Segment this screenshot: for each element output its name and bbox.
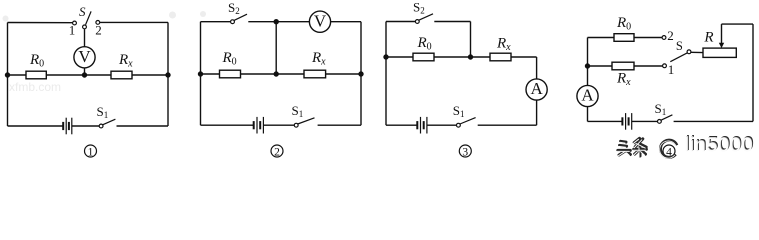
svg-text:lin5000: lin5000 bbox=[685, 135, 754, 157]
node: ckt3 loop junction bbox=[469, 55, 473, 59]
svg-text:R: R bbox=[703, 30, 713, 46]
label circled 4 bbox=[663, 145, 675, 158]
switch S1 ckt2 pivot bbox=[294, 123, 298, 127]
svg-text:Rx: Rx bbox=[311, 50, 326, 68]
wire: battery to left ckt4 bbox=[588, 120, 623, 122]
svg-text:2: 2 bbox=[95, 22, 102, 37]
svg-text:Rx: Rx bbox=[616, 71, 631, 89]
svg-text:S: S bbox=[79, 4, 86, 19]
wire: ckt4 top row left bbox=[588, 37, 615, 39]
svg-text:R0: R0 bbox=[616, 15, 631, 33]
wire: battery to S1 ckt2 bbox=[263, 124, 294, 126]
watermark char 条 (dark strokes) bbox=[634, 138, 647, 156]
voltmeter V ckt2 bbox=[309, 11, 330, 32]
rheostat R body bbox=[703, 48, 736, 57]
svg-text:xfmb.com: xfmb.com bbox=[9, 80, 61, 94]
node: ckt1 mid-left junction bbox=[6, 73, 10, 77]
wire: S2 loop top right bbox=[434, 21, 470, 23]
svg-text:Rx: Rx bbox=[118, 52, 133, 70]
wire: ckt3 left vertical bbox=[385, 22, 387, 126]
watermark @ ring bbox=[660, 140, 676, 157]
wire: mid wire left bbox=[8, 74, 27, 76]
resistor Rx ckt4 bbox=[612, 62, 634, 70]
node: ckt2 mid-center junction bbox=[274, 72, 278, 76]
switch S1 ckt1 blade bbox=[103, 119, 116, 125]
svg-text:1: 1 bbox=[88, 146, 94, 158]
wire: ckt2 mid row left bbox=[201, 73, 220, 75]
svg-text:2: 2 bbox=[667, 28, 674, 43]
resistor R0 ckt1 bbox=[26, 71, 46, 79]
svg-text:S1: S1 bbox=[292, 103, 304, 119]
wire: ammeter to bottom bbox=[536, 100, 538, 125]
wire: ckt1 top right segment bbox=[100, 21, 168, 23]
wire: ckt2 right vertical bbox=[360, 22, 362, 126]
wire: pole to rheostat bbox=[691, 51, 703, 53]
switch S2 ckt2 pivot bbox=[231, 20, 235, 24]
svg-text:1: 1 bbox=[668, 62, 675, 77]
selector pole S bbox=[687, 50, 691, 54]
wire: ckt4 bottom right bbox=[674, 120, 753, 122]
svg-text:V: V bbox=[314, 12, 327, 31]
switch S1 ckt1 pivot bbox=[99, 124, 103, 128]
node: ckt2 top junction bbox=[274, 20, 278, 24]
battery ckt4 bbox=[622, 113, 631, 130]
node: ckt1 mid-center junction bbox=[83, 73, 87, 77]
switch S1 ckt4 blade bbox=[661, 115, 672, 120]
wire: voltmeter to mid wire bbox=[84, 68, 86, 75]
watermark char 头 (white streaks) bbox=[617, 142, 630, 156]
switch S1 ckt3 pivot bbox=[457, 123, 461, 127]
wire: ckt3 bottom right bbox=[478, 124, 537, 126]
wire: right corner to ammeter bbox=[536, 57, 538, 79]
wire: ckt4 Rx row left bbox=[588, 65, 613, 67]
node: ckt2 mid-right junction bbox=[359, 72, 363, 76]
svg-text:S1: S1 bbox=[97, 104, 109, 120]
selector contact 2 bbox=[662, 36, 666, 40]
wire: S2 loop top left bbox=[386, 21, 415, 23]
wire: ckt1 left vertical bbox=[7, 23, 9, 127]
switch S1 ckt4 pivot bbox=[658, 120, 662, 124]
wire: pole to voltmeter bbox=[84, 29, 86, 47]
svg-text:S: S bbox=[676, 39, 683, 53]
resistor Rx ckt2 bbox=[304, 70, 326, 78]
ammeter A ckt4 bbox=[577, 85, 598, 106]
svg-text:1: 1 bbox=[69, 23, 76, 38]
svg-text:R0: R0 bbox=[29, 52, 44, 70]
resistor R0 ckt2 bbox=[220, 70, 241, 78]
wire: R0 to contact 2 bbox=[634, 37, 662, 39]
wire: battery to S1 ckt3 bbox=[427, 124, 457, 126]
switch S1 ckt2 blade bbox=[298, 118, 315, 124]
wire: voltmeter to right corner bbox=[331, 21, 361, 23]
label circled 1 bbox=[85, 145, 97, 158]
selector blade to contact 1 bbox=[670, 53, 687, 62]
wire: ckt1 top left segment bbox=[8, 22, 73, 24]
battery ckt3 bbox=[417, 117, 427, 134]
svg-text:S1: S1 bbox=[453, 103, 465, 119]
selector contact 1 bbox=[663, 64, 667, 68]
wire: ckt2 bottom left bbox=[201, 124, 254, 126]
switch S2 ckt3 pivot bbox=[415, 20, 419, 24]
wire: mid wire right bbox=[132, 74, 168, 76]
svg-text:R0: R0 bbox=[222, 50, 237, 68]
resistor Rx ckt3 bbox=[490, 53, 511, 61]
svg-text:Rx: Rx bbox=[496, 36, 511, 54]
wire: R0 row left bbox=[386, 56, 413, 58]
battery ckt1 bbox=[63, 118, 72, 135]
switch S2 ckt3 blade bbox=[419, 14, 433, 20]
switch S contact 1 bbox=[73, 21, 77, 25]
faint erased-watermark ghosts bbox=[3, 11, 207, 94]
switch S pole bbox=[83, 25, 87, 29]
wire: mid wire center bbox=[46, 74, 111, 76]
watermark char 头 (dark strokes) bbox=[618, 141, 631, 155]
wire: ckt1 right vertical bbox=[167, 22, 169, 126]
watermark char 条 (white streaks) bbox=[633, 139, 646, 157]
svg-text:S2: S2 bbox=[228, 0, 240, 16]
wire: S2 loop right vertical bbox=[470, 22, 472, 58]
resistor R0 ckt4 bbox=[614, 34, 634, 42]
svg-text:2: 2 bbox=[274, 146, 280, 158]
svg-text:S1: S1 bbox=[655, 101, 667, 117]
ammeter A ckt3 bbox=[526, 79, 547, 100]
node: ckt2 mid-left junction bbox=[199, 72, 203, 76]
label circled 3 bbox=[459, 145, 471, 158]
svg-text:A: A bbox=[581, 86, 594, 105]
svg-text:S2: S2 bbox=[413, 0, 425, 16]
svg-text:A: A bbox=[530, 79, 543, 98]
svg-text:R0: R0 bbox=[417, 35, 432, 53]
wire: ckt2 top left segment bbox=[201, 21, 231, 23]
node: ckt3 left junction bbox=[384, 55, 388, 59]
node: ckt1 mid-right junction bbox=[166, 73, 170, 77]
wire: Rx to right corner bbox=[511, 56, 537, 58]
wire: S2 to mid junction bbox=[248, 21, 309, 23]
voltmeter V ckt1 bbox=[74, 47, 95, 68]
rheostat wiper arrow bbox=[721, 24, 723, 44]
wire: Rx to contact 1 bbox=[634, 65, 663, 67]
wire: ckt1 bottom right bbox=[117, 125, 169, 127]
wire: R0 to loop junction bbox=[434, 56, 490, 58]
label circled 2 bbox=[271, 145, 283, 158]
wire: ckt2 middle vertical bbox=[275, 22, 277, 74]
wire: ckt3 bottom left bbox=[386, 124, 417, 126]
wire: battery to S1 bbox=[72, 125, 99, 127]
switch S blade bbox=[86, 11, 92, 24]
svg-text:V: V bbox=[78, 47, 91, 66]
resistor R0 ckt3 bbox=[413, 53, 434, 61]
wire: ammeter to bottom ckt4 bbox=[587, 107, 589, 122]
wire: S1 to battery ckt4 bbox=[632, 120, 658, 122]
wire: ckt4 right vertical bbox=[752, 24, 754, 121]
battery ckt2 bbox=[254, 117, 264, 134]
wire: ckt2 left vertical bbox=[200, 22, 202, 126]
switch S2 ckt2 blade bbox=[234, 14, 247, 20]
switch S contact 2 bbox=[96, 21, 100, 25]
wire: Rx to right bbox=[326, 73, 361, 75]
svg-text:3: 3 bbox=[462, 146, 468, 158]
wire: ckt4 left vertical top bbox=[587, 38, 589, 86]
wire: ckt1 bottom left bbox=[8, 125, 64, 127]
resistor Rx ckt1 bbox=[111, 71, 132, 79]
wire: ckt4 top right bbox=[722, 23, 754, 25]
switch S1 ckt3 blade bbox=[460, 118, 476, 124]
node: ckt4 left junction bbox=[586, 64, 590, 68]
wire: ckt2 bottom right bbox=[318, 124, 361, 126]
wire: R0 to junction bbox=[241, 73, 305, 75]
